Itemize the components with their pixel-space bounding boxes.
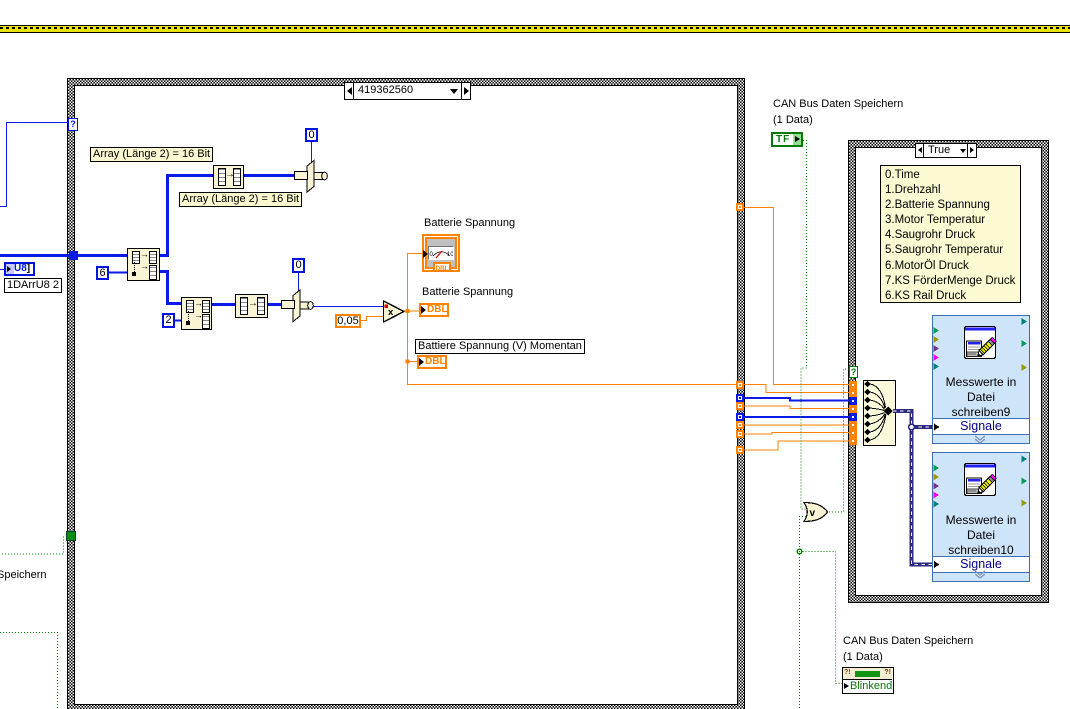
- node: decimate array (node2u): [213, 165, 244, 189]
- svg-text:x: x: [388, 307, 394, 318]
- wire: long DBL run to tunnel T1: [407, 384, 740, 386]
- case selector label 419362560: [344, 82, 471, 100]
- wire: main U8 array (thick blue): [0, 254, 127, 257]
- junction dots: [406, 309, 410, 313]
- label Array (Länge 2) = 16 Bit (lower): [179, 192, 302, 207]
- wire: T0 tunnel to merge M1: [744, 208, 850, 385]
- chart terminal Batterie Spannung: [422, 234, 460, 272]
- case selector ? terminal (big case): [68, 118, 78, 131]
- wire: T5 to M6: [744, 424, 850, 426]
- wire: lower 0 constant drop: [298, 272, 300, 293]
- case selector ? terminal (inner case): [849, 366, 858, 378]
- tunnel M1 (orange, inner case left border): [849, 381, 857, 389]
- tunnel T0 (orange, big case right border): [736, 203, 744, 211]
- boolean wire: OR lower input: [800, 517, 807, 552]
- wire: lower join to multiply (thin I16): [313, 306, 384, 308]
- wire: T4 to M5 (blue): [744, 416, 850, 418]
- wire: T7 to M8: [744, 441, 850, 450]
- express VI Messwerte in Datei schreiben10: [932, 452, 1030, 582]
- tunnel T4 (blue): [736, 413, 744, 421]
- tunnel T5 (orange): [736, 421, 744, 429]
- indicator DBL (Batterie Spannung): [419, 303, 449, 317]
- wire: node2 to node3: [210, 303, 235, 306]
- express VI side arrows schreiben10: [934, 456, 1028, 569]
- inner case selector True: [915, 143, 977, 158]
- express icon schreiben10: [965, 464, 997, 496]
- big case structure 419362560: [67, 78, 745, 709]
- node: split 1D array (node1): [127, 248, 160, 281]
- tunnel T1 (orange): [736, 381, 744, 389]
- merge signals node body: [863, 380, 896, 446]
- TF boolean terminal: [771, 132, 803, 147]
- indicator DBL (Momentan): [417, 355, 447, 369]
- tunnel T7 (orange): [736, 446, 744, 454]
- wire: constant 6 to node1: [109, 272, 127, 274]
- label Batterie Spannung (DBL): [422, 286, 513, 299]
- boolean wire: junction to Blinkend: [800, 552, 844, 684]
- constant 0 (lower): [292, 258, 305, 273]
- OR gate: [804, 503, 828, 522]
- multiply node: [384, 301, 405, 322]
- tunnel M8 (orange): [849, 437, 857, 445]
- wire: T1 to M2: [744, 385, 850, 393]
- wire: node3 to lower join: [266, 303, 283, 306]
- yellow structure border (top band): [0, 25, 1070, 33]
- wire: node2u to upper join: [242, 174, 296, 177]
- tunnel: boolean green (left border): [66, 531, 76, 541]
- boolean wire: left tunnel out: [0, 537, 67, 554]
- wire: constant 2 to node2: [175, 320, 181, 322]
- label: CAN Bus Daten Speichern (top): [773, 98, 903, 111]
- wire: T2 to M3 (blue): [744, 398, 850, 401]
- label Array (Länge 2) = 16 Bit (upper): [90, 147, 213, 162]
- wire: to DBL2: [407, 361, 420, 363]
- label: CAN Bus Daten Speichern (bottom): [843, 635, 973, 648]
- wire: thin blue to case selector: [0, 123, 68, 207]
- boolean wire: bottom left: [0, 633, 58, 709]
- boolean wire: junction down to edge: [799, 551, 801, 709]
- wire: orange vertical trunk: [407, 254, 409, 385]
- express VI side arrows schreiben9: [934, 318, 1028, 431]
- wire: T6 to M7: [744, 433, 850, 435]
- boolean wire: TF down: [801, 141, 807, 510]
- constant 0 (upper): [305, 128, 318, 142]
- tunnel T3 (orange): [736, 402, 744, 410]
- constant 0,05: [335, 314, 361, 328]
- boolean wire: OR out up to ?: [826, 369, 849, 512]
- svg-text:DBL: DBL: [436, 264, 449, 271]
- svg-text:10: 10: [447, 252, 453, 258]
- wire: upper 0 constant drop: [311, 141, 313, 164]
- chevrons: [975, 436, 985, 578]
- node: split 1D array (node2): [181, 297, 212, 330]
- tunnel T6 (orange): [736, 430, 744, 438]
- label 1DArrU8 2: [4, 278, 62, 293]
- wire: to chart terminal: [407, 253, 423, 255]
- node: decimate array (node3): [235, 294, 268, 318]
- tunnel M2 (orange): [849, 389, 857, 397]
- svg-text:0: 0: [430, 252, 434, 258]
- inner case structure True: [848, 140, 1049, 603]
- wire: T3 to M4: [744, 406, 850, 409]
- property node Blinkend: [842, 667, 894, 694]
- label Batterie Spannung (chart): [424, 217, 515, 230]
- constant 2: [162, 313, 175, 328]
- tunnel M7 (orange): [849, 429, 857, 437]
- wire: node1 upper output riser: [158, 176, 213, 256]
- constant 6: [96, 266, 109, 280]
- listbox: signal name list: [880, 165, 1021, 303]
- wire: node1 lower output to node2: [158, 272, 181, 304]
- label Battiere Spannung (V) Momentan: [415, 339, 585, 354]
- tunnel T2 (blue): [736, 394, 744, 402]
- join numbers lower: [282, 290, 314, 322]
- tunnel M3 (blue): [849, 397, 857, 405]
- wire: 0,05 to multiply: [361, 317, 384, 321]
- boolean junction dot: [797, 549, 802, 554]
- express VI Messwerte in Datei schreiben9: [932, 315, 1030, 444]
- tunnel M6 (orange): [849, 421, 857, 429]
- dynamic data wire (navy dashed): [893, 411, 933, 565]
- join numbers upper: [295, 161, 328, 193]
- tunnel: U8 array into big case: [69, 251, 78, 260]
- svg-text:v: v: [810, 508, 816, 519]
- wire: U8 terminal stub: [0, 269, 5, 271]
- merge signals fan: [864, 381, 893, 443]
- label: Speichern (partial, left edge): [0, 569, 47, 582]
- wire: multiply out to DBL1: [404, 310, 421, 312]
- express icon schreiben9: [965, 327, 997, 359]
- tunnel M4 (orange): [849, 405, 857, 413]
- terminal [U8]: [4, 262, 35, 276]
- tunnel M5 (blue): [849, 413, 857, 421]
